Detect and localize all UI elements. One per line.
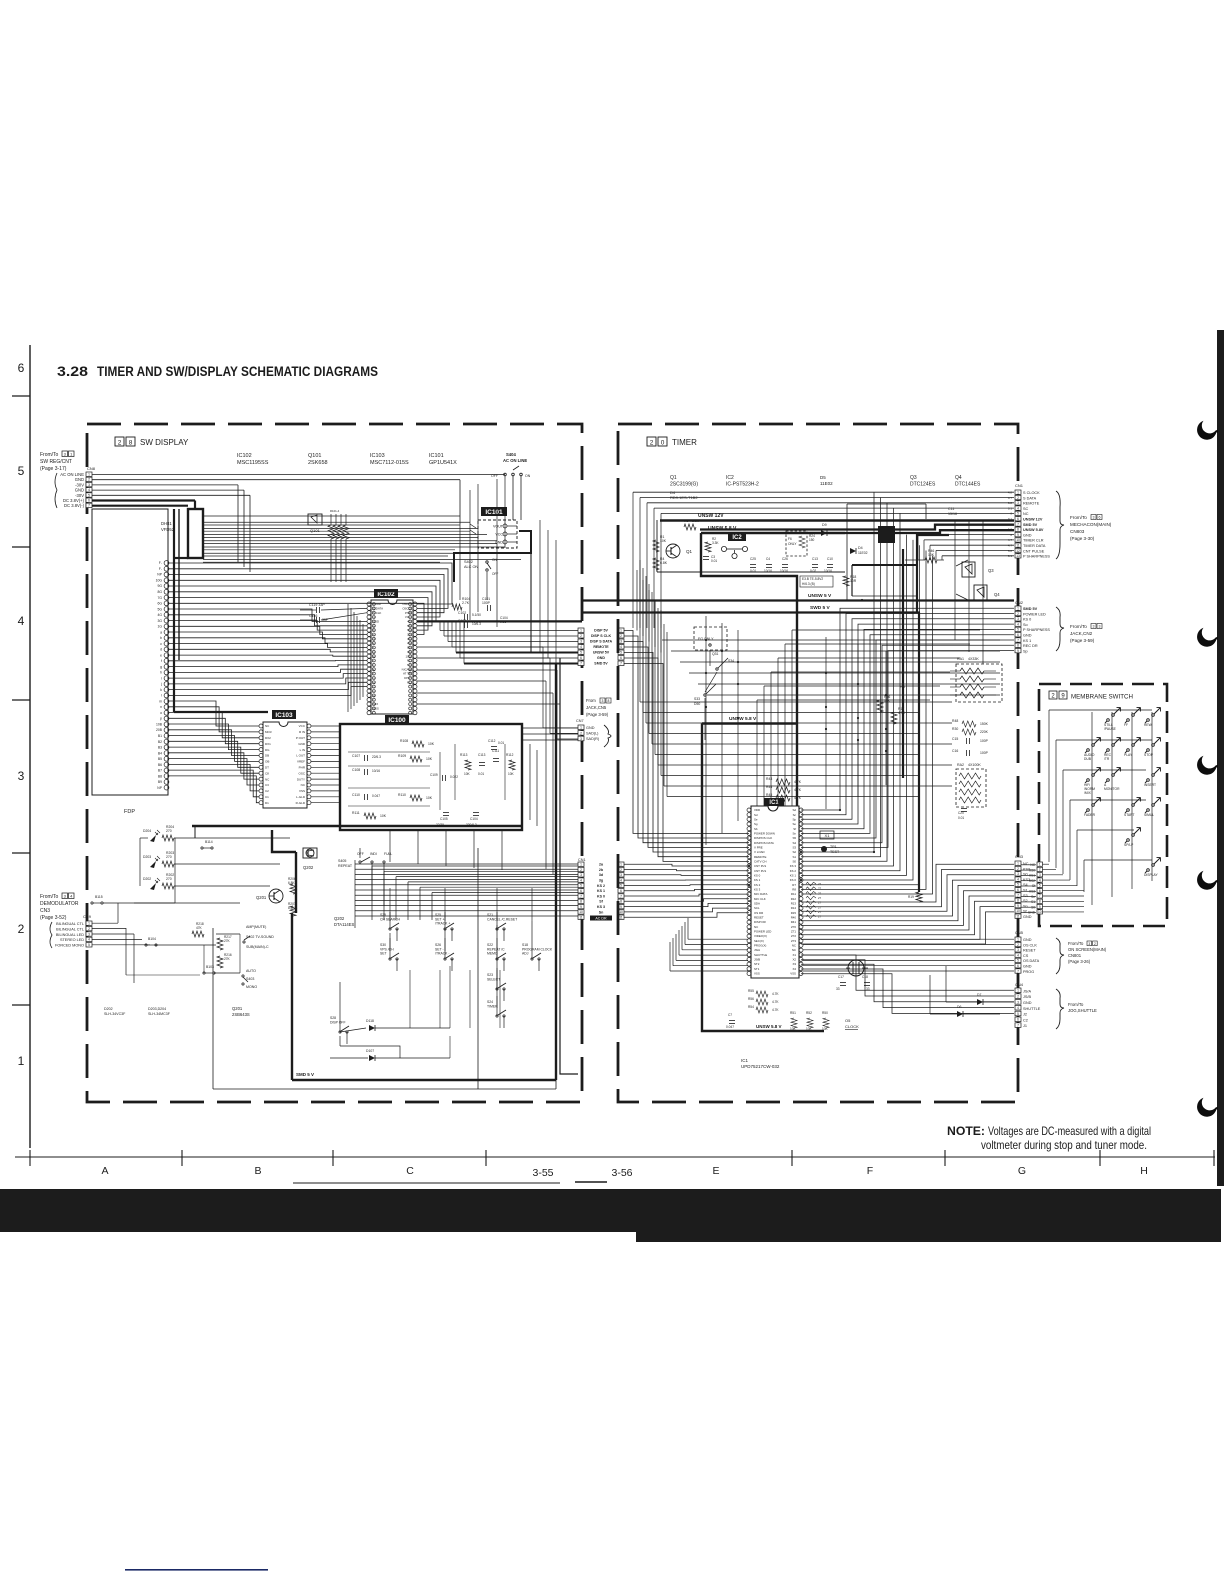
svg-text:e: e: [160, 653, 162, 657]
svg-text:D203: D203: [143, 855, 151, 859]
svg-text:220K: 220K: [980, 730, 989, 734]
svg-text:B6: B6: [158, 763, 162, 767]
svg-text:47K: 47K: [196, 926, 203, 930]
svg-text:Q1: Q1: [686, 549, 693, 554]
svg-text:S CLOCK: S CLOCK: [1023, 491, 1040, 495]
svg-text:TIMER: TIMER: [672, 438, 697, 447]
svg-text:/TR: /TR: [1104, 757, 1110, 761]
svg-text:voltmeter during stop and tune: voltmeter during stop and tuner mode.: [981, 1138, 1147, 1152]
svg-text:GND: GND: [1023, 533, 1032, 537]
svg-text:3: 3: [1017, 872, 1019, 876]
svg-text:D4: D4: [858, 546, 863, 550]
svg-text:DH81: DH81: [161, 521, 172, 526]
svg-text:3.3K: 3.3K: [712, 541, 719, 545]
svg-text:C102: C102: [458, 611, 466, 615]
svg-text:JACK,CN5: JACK,CN5: [586, 705, 607, 710]
CN4 brace: [1056, 989, 1064, 1029]
svg-text:GND: GND: [1023, 1001, 1032, 1005]
svg-text:10: 10: [619, 910, 623, 914]
svg-text:R41: R41: [791, 920, 797, 924]
svg-text:UPD75217CW-032: UPD75217CW-032: [741, 1064, 780, 1069]
svg-text:1: 1: [1017, 989, 1019, 993]
svg-text:TP1: TP1: [830, 845, 837, 849]
svg-text:TIMER AND SW/DISPLAY SCHEMATIC: TIMER AND SW/DISPLAY SCHEMATIC DIAGRAMS: [97, 364, 378, 379]
svg-text:1: 1: [1017, 862, 1019, 866]
IC2 regulator: [728, 533, 746, 541]
svg-text:S30: S30: [380, 943, 386, 947]
svg-text:4: 4: [580, 645, 582, 649]
svg-text:JS/A: JS/A: [1023, 989, 1031, 993]
transistor Q1: [666, 544, 680, 558]
svg-text:11E02: 11E02: [858, 551, 868, 555]
svg-text:DEMODULATOR: DEMODULATOR: [40, 901, 79, 907]
svg-text:Z73: Z73: [791, 939, 796, 943]
svg-text:8: 8: [580, 900, 582, 904]
svg-text:2: 2: [1017, 496, 1019, 500]
wire staircase IC1 right to CN1 long verticals: [801, 492, 933, 894]
svg-text:8: 8: [1039, 900, 1041, 904]
svg-text:11: 11: [579, 916, 583, 920]
svg-text:TIMER CLR: TIMER CLR: [1023, 539, 1044, 543]
svg-text:10K: 10K: [790, 1027, 797, 1031]
svg-text:L IN: L IN: [300, 748, 305, 752]
svg-text:B5: B5: [158, 757, 162, 761]
svg-text:11: 11: [1016, 915, 1020, 919]
membrane switch REW: [1147, 719, 1150, 722]
svg-text:Sn: Sn: [1031, 895, 1035, 899]
sub-circuit thin outline top right: [846, 504, 848, 600]
svg-text:3: 3: [1093, 516, 1095, 520]
svg-text:Q4: Q4: [955, 475, 962, 481]
svg-text:M/C DATA: M/C DATA: [754, 892, 767, 896]
svg-text:2.7K: 2.7K: [462, 601, 470, 605]
svg-text:R40: R40: [791, 916, 797, 920]
svg-text:3: 3: [88, 483, 90, 487]
svg-text:ON SCREEN(MAIN): ON SCREEN(MAIN): [1068, 947, 1107, 952]
svg-text:D7: D7: [977, 993, 981, 997]
svg-text:P SHARPNESS: P SHARPNESS: [1023, 555, 1050, 559]
svg-text:27: 27: [818, 887, 822, 891]
svg-text:ON: ON: [525, 474, 531, 478]
svg-text:8: 8: [1017, 528, 1019, 532]
svg-text:3: 3: [620, 640, 622, 644]
svg-text:Z72: Z72: [791, 934, 796, 938]
svg-text:DISP S CLK: DISP S CLK: [591, 634, 612, 638]
svg-text:27: 27: [818, 896, 822, 900]
resistor R19 end of riser: [916, 892, 922, 902]
thick trunk Q202 to SMD rail: [295, 852, 297, 913]
svg-text:IC-PST523H-2: IC-PST523H-2: [726, 482, 759, 488]
right edge binding bar: [1217, 330, 1224, 1186]
wire staircase lower interboard to IC1: [624, 864, 749, 917]
svg-text:Sf: Sf: [793, 827, 796, 831]
svg-text:B7: B7: [158, 769, 162, 773]
svg-text:6: 6: [1017, 633, 1019, 637]
mesh horizontals mid right box: [662, 640, 1000, 695]
svg-text:CNT PLS: CNT PLS: [754, 869, 766, 873]
transistor Q3: [962, 562, 975, 577]
membrane switch DISPLAY: [1147, 869, 1150, 872]
svg-text:AC DR: AC DR: [595, 917, 607, 921]
svg-text:PROG: PROG: [1023, 970, 1034, 974]
svg-text:Sp: Sp: [792, 817, 796, 821]
svg-text:R14: R14: [791, 906, 797, 910]
svg-text:9: 9: [1039, 905, 1041, 909]
svg-text:INSERT: INSERT: [1144, 783, 1156, 787]
svg-text:10K: 10K: [426, 757, 433, 761]
junction dots mid right box: [701, 599, 920, 941]
svg-text:X3: X3: [792, 962, 796, 966]
svg-text:Q201: Q201: [256, 895, 267, 900]
svg-text:2: 2: [1017, 612, 1019, 616]
wire S404 down to IC101: [512, 476, 514, 520]
svg-text:R7: R7: [792, 883, 796, 887]
svg-text:DTC144ES: DTC144ES: [955, 482, 981, 488]
svg-text:D5: D5: [820, 475, 826, 480]
svg-text:CS: CS: [1023, 954, 1029, 958]
wire staircase IC1 right to CN3 membrane rows: [801, 864, 1014, 944]
svg-text:R54: R54: [748, 1005, 754, 1009]
svg-text:3.3K: 3.3K: [692, 519, 700, 523]
svg-text:S2: S2: [792, 850, 796, 854]
svg-text:7: 7: [620, 662, 622, 666]
svg-text:GND: GND: [597, 656, 605, 660]
svg-text:BILINGUAL CTL: BILINGUAL CTL: [56, 922, 84, 926]
svg-text:R8: R8: [792, 888, 796, 892]
svg-text:(Page 3-26): (Page 3-26): [1068, 959, 1091, 964]
SW DISPLAY board dashed outline: [87, 424, 582, 1102]
svg-text:33: 33: [866, 987, 870, 991]
svg-text:Q31: Q31: [712, 652, 719, 656]
svg-text:6: 6: [88, 499, 90, 503]
svg-text:R15: R15: [791, 911, 797, 915]
svg-text:6: 6: [1017, 1018, 1019, 1022]
svg-text:UNSW 12V: UNSW 12V: [698, 513, 724, 519]
svg-text:10K: 10K: [806, 1027, 813, 1031]
svg-text:5: 5: [1017, 1012, 1019, 1016]
CN8 brace: [55, 473, 57, 508]
svg-text:REMOTE: REMOTE: [593, 645, 609, 649]
svg-text:DISP 5V: DISP 5V: [594, 629, 608, 633]
svg-text:KS 1: KS 1: [1023, 639, 1031, 643]
svg-text:LOAD: LOAD: [373, 602, 381, 606]
svg-text:SET: SET: [380, 952, 387, 956]
svg-text:B9: B9: [158, 780, 162, 784]
IC102 VFD driver DIP body: [371, 600, 413, 714]
svg-text:5G: 5G: [157, 607, 162, 611]
IC1 pins and labels: [747, 808, 803, 976]
IC1 right pin resistor row: [806, 882, 822, 919]
svg-text:c: c: [160, 642, 162, 646]
svg-text:7: 7: [580, 662, 582, 666]
CN9 wires: [92, 903, 150, 983]
dashed option box: [786, 531, 807, 556]
wire bus from CN8: [92, 475, 505, 573]
svg-text:R110: R110: [398, 793, 406, 797]
svg-text:REMOTE: REMOTE: [1023, 502, 1040, 506]
svg-text:R5: R5: [684, 519, 688, 523]
svg-text:Sc: Sc: [793, 813, 797, 817]
svg-text:15/16: 15/16: [948, 512, 957, 516]
svg-text:0: 0: [661, 440, 665, 447]
bold subboard bottom rail: [702, 940, 824, 1031]
svg-text:IC103: IC103: [275, 712, 293, 719]
svg-text:2: 2: [580, 731, 582, 735]
bold L x917: [917, 535, 949, 612]
filament supply thick box: [188, 509, 203, 558]
bottom ruler tick 2: [181, 1150, 183, 1166]
svg-text:IC102: IC102: [377, 591, 395, 598]
svg-text:Sn: Sn: [599, 910, 604, 914]
svg-text:A: A: [101, 1165, 108, 1177]
svg-text:FF: FF: [1124, 723, 1128, 727]
svg-text:0.01: 0.01: [478, 772, 484, 776]
svg-text:4: 4: [580, 878, 582, 882]
svg-text:(Page 3-30): (Page 3-30): [1070, 536, 1095, 541]
svg-text:D202: D202: [104, 1007, 113, 1011]
svg-text:DG: DG: [265, 748, 270, 752]
svg-text:From/To: From/To: [40, 894, 59, 900]
thick SMD5V bottom rail: [292, 1079, 556, 1081]
svg-text:15K: 15K: [884, 699, 891, 703]
thick SMD5V trunk bottom left: [194, 826, 196, 838]
svg-text:3: 3: [580, 640, 582, 644]
svg-text:SHUTTLE: SHUTTLE: [754, 953, 767, 957]
svg-text:B114: B114: [205, 840, 213, 844]
svg-text:2: 2: [1039, 868, 1041, 872]
membrane switch INSERT: [1147, 779, 1150, 782]
svg-text:3: 3: [620, 873, 622, 877]
wire bus IC102 right to interboard connector: [440, 621, 578, 664]
wires upper-right area verticals: [460, 476, 556, 663]
svg-text:AUTO: AUTO: [246, 969, 256, 973]
svg-text:3: 3: [88, 932, 90, 936]
svg-text:3-56: 3-56: [611, 1167, 632, 1179]
svg-text:C18: C18: [862, 975, 868, 979]
bottom ruler tick 1: [29, 1150, 31, 1166]
svg-text:ST2: ST2: [754, 962, 760, 966]
svg-text:KS 0: KS 0: [597, 894, 605, 898]
svg-text:2: 2: [620, 634, 622, 638]
svg-text:H: H: [1140, 1165, 1148, 1177]
svg-text:S405: S405: [338, 859, 346, 863]
FDP pin circles and labels: [156, 561, 169, 790]
svg-text:AMP(MUTE): AMP(MUTE): [246, 925, 266, 929]
svg-text:KS0: KS0: [1029, 868, 1035, 872]
svg-text:CN3: CN3: [1015, 854, 1024, 859]
svg-text:S403: S403: [246, 977, 254, 981]
svg-text:/MIX: /MIX: [1084, 791, 1092, 795]
transistor Q202: [303, 848, 317, 858]
membrane switch STOP: [1147, 749, 1150, 752]
svg-text:From/To: From/To: [40, 452, 59, 458]
svg-text:S0: S0: [792, 860, 796, 864]
svg-text:J1: J1: [1023, 1024, 1027, 1028]
svg-text:NC: NC: [1030, 863, 1035, 867]
wires caps to IC102 top pins: [321, 608, 367, 610]
svg-text:10K: 10K: [508, 772, 515, 776]
svg-text:SWD 5 V: SWD 5 V: [810, 605, 831, 611]
svg-text:M/C CLK: M/C CLK: [754, 897, 766, 901]
svg-text:f: f: [161, 659, 162, 663]
svg-text:270: 270: [166, 829, 172, 833]
IC1 microcontroller DIP body: [751, 806, 799, 978]
svg-text:0.01: 0.01: [711, 559, 717, 563]
svg-text:O5: O5: [845, 1018, 851, 1023]
vertical bundle left of right box: [637, 570, 661, 653]
svg-text:C1: C1: [265, 795, 269, 799]
svg-text:G: G: [1018, 1165, 1026, 1177]
svg-text:27: 27: [818, 882, 822, 886]
svg-text:100P: 100P: [980, 739, 989, 743]
svg-text:NP: NP: [157, 786, 162, 790]
svg-text:270: 270: [166, 877, 172, 881]
binder hook 3: [1197, 756, 1218, 775]
svg-text:DISP/OS CLK: DISP/OS CLK: [754, 836, 772, 840]
svg-text:PROG(X): PROG(X): [754, 944, 766, 948]
svg-text:5: 5: [1017, 883, 1019, 887]
svg-text:S26: S26: [435, 943, 441, 947]
svg-text:NC: NC: [1023, 862, 1029, 866]
svg-text:4.7K: 4.7K: [794, 780, 802, 784]
svg-text:S404: S404: [506, 452, 516, 457]
svg-text:OSC 1: OSC 1: [402, 602, 411, 606]
svg-text:DISPLAY: DISPLAY: [1144, 873, 1158, 877]
svg-text:S1: S1: [792, 855, 796, 859]
svg-text:FULL: FULL: [384, 852, 392, 856]
svg-text:KS 1: KS 1: [754, 878, 761, 882]
svg-text:AT TR: AT TR: [403, 672, 411, 676]
svg-text:SP/LP: SP/LP: [1124, 843, 1134, 847]
svg-text:MEMO: MEMO: [487, 952, 498, 956]
membrane switch START: [1127, 809, 1130, 812]
svg-text:100P: 100P: [980, 751, 989, 755]
svg-text:Sn: Sn: [1023, 904, 1028, 908]
svg-text:ALC ON: ALC ON: [464, 565, 478, 569]
shield box internal components: [348, 739, 515, 827]
svg-text:OFF: OFF: [491, 474, 498, 478]
svg-text:Voltages are DC-measured with: Voltages are DC-measured with a digital: [988, 1124, 1151, 1138]
svg-text:SEC(X): SEC(X): [754, 939, 764, 943]
svg-text:8: 8: [129, 440, 133, 447]
IC101 pins: [493, 524, 517, 544]
svg-text:HO: HO: [900, 685, 905, 689]
svg-text:X2: X2: [792, 958, 796, 962]
bottom ruler line: [15, 1156, 1215, 1158]
svg-text:R101-4: R101-4: [330, 509, 340, 513]
svg-text:VFD52: VFD52: [161, 527, 175, 532]
svg-text:R44: R44: [766, 785, 772, 789]
CN2 brace: [1056, 607, 1064, 651]
svg-text:0.047: 0.047: [372, 794, 380, 798]
svg-text:10K: 10K: [428, 742, 435, 746]
svg-text:MIX: MIX: [373, 702, 378, 706]
svg-text:7: 7: [1017, 893, 1019, 897]
svg-text:R109: R109: [398, 754, 406, 758]
membrane switch FADER: [1087, 809, 1090, 812]
svg-text:ONLY: ONLY: [788, 542, 797, 546]
svg-text:C: C: [406, 1165, 414, 1177]
svg-text:8G: 8G: [157, 590, 162, 594]
svg-text:(Page 3-59): (Page 3-59): [586, 712, 609, 717]
svg-text:k: k: [160, 688, 162, 692]
svg-text:P SHARPNESS: P SHARPNESS: [1023, 628, 1050, 632]
svg-text:S34: S34: [728, 659, 734, 663]
svg-text:JOG,SHUTTLE: JOG,SHUTTLE: [1068, 1008, 1097, 1013]
svg-text:6: 6: [580, 656, 582, 660]
svg-text:0.1: 0.1: [1008, 517, 1013, 521]
svg-text:R12: R12: [791, 897, 797, 901]
svg-text:S29: S29: [380, 913, 386, 917]
svg-text:S1: S1: [1023, 889, 1028, 893]
svg-text:Sp: Sp: [1023, 649, 1028, 653]
svg-text:33: 33: [836, 987, 840, 991]
svg-text:POWER DOWN: POWER DOWN: [754, 832, 775, 836]
svg-text:DX1: DX1: [265, 742, 271, 746]
diode D118: [369, 1025, 375, 1031]
svg-text:20B: 20B: [156, 728, 163, 732]
svg-text:STEREO LED: STEREO LED: [60, 938, 84, 942]
svg-text:SMD 5V: SMD 5V: [1023, 523, 1038, 527]
svg-text:VSS: VSS: [790, 972, 796, 976]
svg-text:VIDEO(X): VIDEO(X): [754, 934, 767, 938]
svg-text:4: 4: [1017, 1006, 1019, 1010]
svg-text:VDD: VDD: [754, 808, 760, 812]
svg-text:SDA: SDA: [754, 902, 760, 906]
svg-text:MSC7112-015S: MSC7112-015S: [370, 460, 409, 466]
switch matrix wiring: [340, 866, 578, 1058]
svg-text:DX2: DX2: [265, 736, 271, 740]
svg-text:REMOTE: REMOTE: [754, 855, 766, 859]
svg-text:JS/A: JS/A: [754, 948, 760, 952]
svg-text:5: 5: [1017, 959, 1019, 963]
svg-text:27: 27: [818, 901, 822, 905]
svg-text:DUTY: DUTY: [297, 777, 305, 781]
svg-text:AC ON LINE: AC ON LINE: [503, 458, 527, 463]
svg-text:CN4: CN4: [1015, 982, 1024, 987]
svg-text:D118: D118: [366, 1019, 374, 1023]
svg-text:3: 3: [1017, 1000, 1019, 1004]
svg-text:REPEAT: REPEAT: [338, 864, 353, 868]
upper mid vertical drops to CN1: [955, 520, 983, 664]
diode D6: [957, 1011, 963, 1017]
svg-text:5.8: 5.8: [1008, 522, 1013, 526]
svg-text:DTA114ES: DTA114ES: [334, 922, 355, 927]
svg-text:UNSW 12V: UNSW 12V: [1023, 518, 1043, 522]
left margin ruler line: [29, 345, 31, 1148]
svg-text:MO3: MO3: [265, 730, 272, 734]
svg-text:SMD 5 V: SMD 5 V: [296, 1072, 314, 1077]
svg-text:KS 2: KS 2: [597, 884, 605, 888]
svg-text:9G: 9G: [157, 584, 162, 588]
svg-text:SUB(MAIN)-C: SUB(MAIN)-C: [246, 945, 269, 949]
svg-text:GND: GND: [1023, 915, 1032, 919]
CN3 wires to membrane connector: [1021, 865, 1036, 913]
svg-text:1: 1: [620, 629, 622, 633]
thick trunk wires right of FDP: [173, 509, 175, 712]
IC101 IR receiver black tag: [481, 507, 507, 516]
svg-text:2: 2: [620, 868, 622, 872]
svg-text:C107: C107: [352, 754, 360, 758]
svg-text:S4: S4: [1023, 883, 1028, 887]
svg-text:SHUTTLE: SHUTTLE: [1023, 1007, 1041, 1011]
switch S404 contacts: [504, 473, 507, 476]
svg-text:10K: 10K: [822, 1027, 829, 1031]
svg-text:Sg: Sg: [754, 822, 758, 826]
svg-text:Sf: Sf: [1032, 884, 1035, 888]
switch area enclosure: [212, 928, 214, 1089]
svg-text:L OUT: L OUT: [296, 754, 305, 758]
